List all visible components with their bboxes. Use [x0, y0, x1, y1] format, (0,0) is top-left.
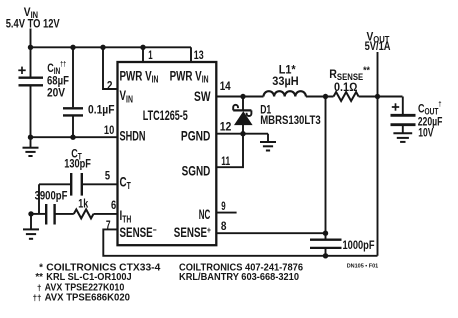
svg-text:14: 14	[220, 79, 231, 93]
label CT value	[64, 147, 91, 170]
svg-text:7: 7	[106, 218, 111, 232]
node VIN label	[6, 6, 60, 30]
svg-text:10V: 10V	[418, 126, 433, 140]
svg-text:0.1µF: 0.1µF	[88, 103, 115, 117]
svg-text:MBRS130LT3: MBRS130LT3	[260, 113, 321, 127]
node junction pin8/1000pF	[323, 231, 328, 236]
label COUT value	[418, 101, 443, 139]
svg-text:AVX TPSE686K020: AVX TPSE686K020	[45, 292, 131, 303]
capacitor CT 130pF and pin5 wire	[39, 173, 118, 214]
op-amp U1 LTC1265-5 IC body	[118, 62, 217, 245]
svg-text:LTC1265-5: LTC1265-5	[143, 108, 188, 123]
node junction 3900pF/ground	[28, 211, 33, 216]
svg-text:130pF: 130pF	[64, 156, 91, 170]
svg-text:NC: NC	[199, 206, 211, 222]
wire SENSE+ pin8	[216, 232, 325, 234]
capacitor 0.1uF	[63, 47, 83, 137]
wire SHDN / pin10	[31, 136, 118, 138]
diode D1 MBRS130LT3	[233, 97, 251, 134]
wire top input rail	[31, 46, 192, 48]
footnote asterisk coiltronics	[33, 262, 304, 303]
svg-text:5: 5	[105, 169, 110, 183]
wire pin2 connection	[103, 47, 118, 89]
wire VOUT vertical	[377, 52, 379, 256]
ground below CIN	[23, 137, 39, 156]
ground COUT	[393, 133, 412, 142]
ground PGND	[260, 134, 276, 151]
svg-text:33µH: 33µH	[272, 74, 298, 88]
node VOUT label	[365, 31, 391, 53]
node junction pin1 drop	[140, 45, 145, 50]
label CIN value	[47, 61, 69, 100]
wire VIN lead down to rail	[30, 29, 32, 48]
wire NC stub	[216, 212, 236, 214]
capacitor CIN 68uF 20V	[18, 47, 43, 137]
inductor L1 33uH	[264, 91, 306, 96]
node junction VIN/CIN	[28, 45, 33, 50]
svg-text:**: **	[35, 272, 43, 283]
svg-text:6: 6	[111, 198, 116, 212]
node junction VOUT	[375, 94, 380, 99]
label RSENSE	[329, 64, 370, 94]
svg-text:SGND: SGND	[182, 162, 211, 178]
svg-text:8: 8	[221, 219, 227, 233]
capacitor 1000pF	[310, 97, 342, 256]
node junction D1/SW	[240, 94, 245, 99]
label D1	[260, 102, 321, 127]
node junction 0.1uF top	[70, 45, 75, 50]
ground below 3900pF	[23, 214, 39, 239]
svg-text:SW: SW	[194, 88, 211, 104]
svg-text:10: 10	[104, 123, 115, 137]
svg-text:13: 13	[194, 48, 204, 62]
wire SW output rail	[216, 96, 263, 98]
IC pin labels	[120, 68, 212, 241]
svg-text:5.4V TO 12V: 5.4V TO 12V	[6, 18, 60, 30]
wire PGND pin12	[216, 133, 268, 135]
svg-text:9: 9	[221, 199, 226, 213]
svg-text:20V: 20V	[47, 85, 65, 99]
svg-text:12: 12	[220, 120, 232, 134]
svg-text:1: 1	[148, 48, 153, 62]
wire SGND pin11 to PGND net	[216, 134, 243, 168]
svg-text:2: 2	[107, 79, 113, 93]
wire 1k to pin6	[94, 213, 118, 215]
node junction pin2 drop	[100, 45, 105, 50]
label L1	[272, 63, 298, 89]
wire L1 to Rsense	[306, 96, 334, 98]
svg-text:1000pF: 1000pF	[343, 238, 375, 252]
svg-text:0.1Ω: 0.1Ω	[334, 80, 357, 94]
wire Rsense to COUT	[359, 96, 403, 98]
wire pin13 drop	[190, 47, 192, 62]
svg-text:SENSE−: SENSE−	[120, 224, 157, 240]
capacitor 3900pF	[31, 204, 74, 225]
svg-text:1k: 1k	[78, 197, 88, 211]
svg-text:KRL/BANTRY 603-668-3210: KRL/BANTRY 603-668-3210	[179, 272, 300, 283]
node junction 0.1uF/SHDN	[70, 135, 75, 140]
node junction D1/PGND	[240, 131, 245, 136]
wire pin1 drop	[142, 47, 144, 62]
svg-text:3900pF: 3900pF	[35, 189, 68, 203]
svg-text:SENSE+: SENSE+	[174, 224, 211, 240]
node junction 1000pF/bottom wire	[323, 253, 328, 258]
svg-text:5V/1A: 5V/1A	[365, 41, 391, 53]
svg-text:†: †	[37, 284, 41, 293]
node junction CIN/SHDN	[28, 135, 33, 140]
wire pin7 SENSE- feedback	[103, 229, 377, 255]
svg-text:††: ††	[33, 293, 42, 302]
resistor 1k	[74, 209, 94, 218]
node junction Rsense left / 1000pF	[323, 94, 328, 99]
svg-text:PGND: PGND	[181, 128, 211, 144]
resistor RSENSE 0.1ohm	[334, 92, 359, 101]
svg-text:11: 11	[221, 154, 230, 168]
capacitor COUT 220uF	[391, 97, 416, 133]
svg-text:DN105 • F01: DN105 • F01	[347, 264, 379, 270]
svg-text:SHDN: SHDN	[120, 128, 146, 144]
